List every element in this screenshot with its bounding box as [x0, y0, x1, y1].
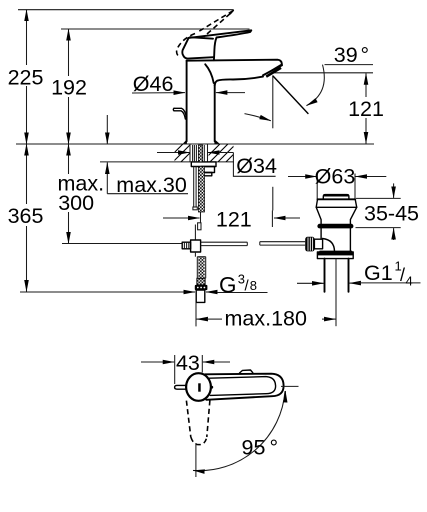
dimension 365 [8, 144, 44, 292]
dimension Ø63 [288, 165, 386, 200]
pin dot [210, 386, 213, 389]
svg-text:35-45: 35-45 [364, 201, 419, 225]
top reference line (lever max height) [18, 9, 234, 11]
pull rod below counter [194, 145, 197, 207]
radius leg line [195, 443, 197, 477]
G3/8 connector nut [195, 285, 208, 290]
mounting flange under counter [191, 162, 216, 167]
G 3/8 label and right arrow [206, 272, 268, 298]
max.30 upper pointer arrow [106, 115, 108, 144]
dimension 121 (height, right) [348, 73, 384, 143]
spout underside [215, 77, 263, 86]
drain tailpipe [325, 259, 349, 292]
G3/8 connector tube [196, 290, 205, 302]
knurled knob on drain [305, 237, 314, 252]
counter hatching left of hole [165, 144, 199, 162]
svg-text:Ø34: Ø34 [236, 154, 277, 178]
handle top notch [240, 370, 253, 373]
faucet base left foot [183, 139, 187, 143]
spout-body junction curve [205, 64, 214, 83]
handle body (top view) [205, 374, 284, 400]
counter hole right wall [207, 144, 209, 162]
dimension 192 [51, 29, 87, 144]
small swing arc under spout [245, 114, 271, 121]
max.30 bracket [107, 163, 188, 198]
thumb screw [182, 242, 190, 249]
hose top fitting stub [198, 223, 201, 230]
svg-text:°: ° [270, 435, 279, 459]
pull-rod knob at rear [173, 108, 186, 119]
lever handle solid (side view) [182, 30, 251, 60]
valve body circle (top view) [186, 373, 211, 401]
svg-text:121: 121 [216, 207, 252, 231]
projection line from spout outlet [272, 76, 274, 129]
39deg stream diagonal [273, 76, 308, 114]
dimension max.180 [196, 303, 336, 331]
svg-text:4: 4 [406, 274, 413, 289]
horizontal pop-up rod right part [260, 242, 305, 245]
drain flange shoulder [316, 206, 357, 208]
svg-text:G1: G1 [364, 261, 393, 285]
dimension Ø46 with leader [132, 72, 245, 96]
spout top edge [187, 60, 282, 75]
pull rod joint block [191, 240, 201, 252]
reference line 192 level [61, 28, 250, 30]
svg-text:192: 192 [51, 76, 87, 100]
svg-text:43: 43 [176, 351, 200, 375]
G1 1/4 label with arrows [297, 259, 421, 289]
lever handle dashed raised position [177, 11, 234, 58]
counter hatching right of hole [202, 144, 244, 162]
svg-text:95: 95 [242, 435, 266, 459]
svg-text:225: 225 [8, 66, 44, 90]
max.300 bottom reference line [62, 243, 182, 245]
handle inner contour (top view) [210, 377, 276, 396]
drain center line [335, 259, 337, 327]
svg-text:39: 39 [334, 43, 358, 67]
center mark [198, 383, 201, 391]
svg-text:max.30: max.30 [116, 173, 187, 197]
svg-text:G: G [219, 272, 237, 297]
drain plug cap [323, 195, 349, 199]
dimension 225 [8, 10, 44, 144]
drain neck taper [316, 207, 357, 224]
39deg angle arc with arrow [307, 65, 325, 106]
svg-text:Ø63: Ø63 [315, 165, 356, 189]
pull rod tab (top view) [175, 385, 187, 389]
pull rod bottom cap [193, 207, 197, 210]
drain rubber gasket [317, 224, 353, 229]
95deg arc arrowheads [284, 391, 286, 402]
pull rod stub below joint [194, 252, 196, 257]
dimension Ø34 with leaders [157, 153, 277, 179]
drain flange top edge [318, 198, 356, 200]
aerator outlet face [264, 64, 283, 75]
countertop top surface line [16, 143, 374, 145]
svg-text:/: / [400, 265, 405, 285]
shank thread / braided hose column [193, 145, 205, 212]
hose thread collar [197, 278, 205, 285]
center line extension right [281, 385, 299, 387]
counter hole left wall [189, 144, 191, 162]
pull rod mid section [194, 225, 196, 241]
svg-text:max.180: max.180 [225, 307, 308, 331]
dashed handle forward position [186, 400, 210, 444]
outlet horizontal reference line [272, 72, 373, 74]
supply level reference line with G3/8 left arrow [20, 291, 184, 293]
svg-text:121: 121 [348, 97, 384, 121]
dimension 121 (projection, lower) [163, 207, 300, 231]
horizontal pop-up rod left part [201, 242, 248, 245]
svg-text:8: 8 [250, 278, 257, 293]
countertop bottom surface line [100, 161, 234, 163]
dimension max.300 [58, 144, 105, 244]
knob connector stem [314, 239, 322, 249]
svg-text:300: 300 [58, 191, 94, 215]
flexible hose lower section (braided) [197, 257, 205, 279]
hose fitting hex steps [201, 167, 215, 173]
faucet body right edge [214, 85, 216, 142]
drain flange sides [316, 199, 357, 207]
39deg label underline [325, 64, 374, 66]
svg-text:365: 365 [8, 204, 44, 228]
svg-text:°: ° [361, 43, 370, 67]
faucet body left edge [186, 61, 188, 142]
dimension 43 [141, 351, 230, 384]
dashed lever tip cap [231, 10, 234, 13]
35-45 dimension [356, 183, 420, 240]
drain body below gasket [320, 228, 352, 251]
drain slip nut [317, 252, 353, 259]
faucet base right foot [214, 139, 219, 143]
95deg angle arc [193, 391, 285, 471]
